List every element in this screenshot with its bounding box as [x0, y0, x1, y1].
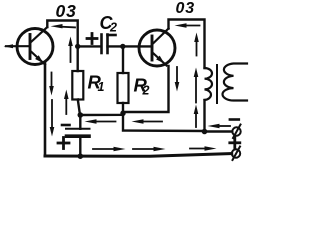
- battery bottom lead: [79, 136, 81, 156]
- transistor Q2 emitter: [153, 53, 167, 66]
- current arrow (left, under Q1 top wire): [60, 26, 75, 29]
- transistor Q2 emitter arrowhead: [156, 56, 164, 64]
- current arrow (right, rail 3): [190, 148, 206, 150]
- node R2/mid-wire junction dot: [120, 111, 125, 116]
- wire Q2 collector loop to transformer: [169, 20, 205, 69]
- arrow on Q1 base lead: [4, 44, 14, 48]
- svg-text:2: 2: [142, 84, 150, 98]
- node B junction dot: [120, 44, 125, 49]
- current arrow (up, right side C): [195, 113, 197, 127]
- current arrow (right, rail 1): [93, 148, 115, 150]
- wire R2 top lead: [122, 46, 124, 73]
- battery long plate: [66, 128, 90, 130]
- battery top lead: [79, 115, 81, 129]
- transformer secondary winding: [223, 64, 247, 101]
- wire R1 bottom to battery node: [78, 100, 80, 116]
- current arrow (up, beside R1 bottom wire): [65, 98, 67, 114]
- current arrow (left, under Q2 top wire): [184, 25, 200, 27]
- svg-text:03: 03: [56, 1, 77, 21]
- plus output label: [230, 141, 240, 144]
- current arrow (down, beside Q2 emitter wire): [176, 67, 178, 83]
- resistor R1: [72, 71, 83, 100]
- wire node A to capacitor C2: [78, 45, 101, 47]
- svg-text:03: 03: [176, 0, 195, 17]
- capacitor C2 plus sign: [87, 37, 97, 40]
- wire junction to minus terminal: [205, 130, 233, 132]
- battery plus label: [58, 142, 69, 145]
- current arrow (up, beside R1 top wire): [70, 45, 72, 62]
- capacitor C2 minus sign: [108, 34, 116, 37]
- transistor Q1 base bar: [29, 35, 32, 59]
- current arrow (up, right side B): [195, 76, 197, 103]
- wire Q2 emitter down and left (mid wire): [80, 66, 168, 115]
- current arrow (left, mid wire near battery): [94, 121, 116, 123]
- current arrow (left, to minus terminal): [217, 125, 230, 127]
- current arrow (right, rail 2): [133, 148, 155, 150]
- transistor Q1 circle: [17, 29, 53, 65]
- wire R2 bottom lead to lower rail corner: [123, 103, 205, 131]
- capacitor C2 right plate: [106, 35, 109, 54]
- transformer core: [216, 65, 218, 103]
- svg-text:2: 2: [109, 21, 117, 35]
- minus output label: [230, 118, 239, 121]
- transistor Q1 collector: [31, 27, 47, 42]
- wire primary bottom to junction: [203, 100, 205, 132]
- svg-text:1: 1: [98, 80, 105, 94]
- wire Q1 collector loop: [47, 21, 77, 72]
- terminal plus: [232, 149, 240, 157]
- transformer T1 primary winding: [205, 68, 213, 100]
- current arrow (left, mid wire right part): [141, 121, 162, 123]
- transistor Q1 emitter: [31, 52, 45, 65]
- transistor Q2 circle: [139, 30, 175, 66]
- current arrow (up, right side A): [196, 41, 198, 56]
- transistor Q1 emitter arrowhead: [35, 55, 43, 63]
- battery node junction dot: [78, 112, 84, 118]
- transistor Q2 base bar: [151, 36, 154, 60]
- battery bottom rail junction dot: [78, 153, 84, 159]
- transformer bottom junction dot: [202, 129, 208, 135]
- battery thick plate: [67, 134, 90, 138]
- transistor Q2 collector: [153, 29, 169, 44]
- wire left outer loop (Q1 emitter down): [44, 63, 47, 156]
- resistor R2: [118, 73, 129, 103]
- wire bottom rail: [45, 154, 232, 157]
- capacitor C2 left plate: [100, 35, 103, 54]
- wire C2 to Q2 base: [108, 45, 153, 47]
- current arrow (down, upper left): [51, 73, 53, 88]
- current arrow (down, lower left): [51, 100, 53, 129]
- battery minus label: [62, 124, 70, 127]
- transistor Q1 base lead: [6, 45, 30, 47]
- node A junction dot: [75, 44, 80, 49]
- terminal minus: [232, 127, 240, 135]
